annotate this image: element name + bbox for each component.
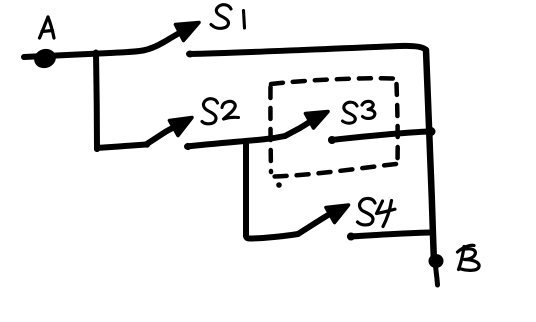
junction dot S3/right rail [427,127,436,136]
node B label [458,245,480,270]
label S2 [202,99,239,124]
contact blob S1 [187,51,194,58]
stray dash dot [276,182,282,188]
switch S2 fixed wire continuing to S3 arm pivot [187,136,285,147]
right rail wire (down to B) [426,50,434,263]
wire branch to S2 pivot [97,145,146,150]
junction at A branch [96,53,97,150]
branch wire down to S4 [243,142,249,236]
dashed box bottom edge [273,164,396,177]
switch S3 fixed contact wire to right rail [331,132,430,141]
switch S4 arrowhead [326,205,349,223]
switch S4 fixed contact wire to right rail [350,233,430,237]
switch S1 arm [143,30,186,51]
switch S4 arm [298,212,333,234]
switch S1 fixed contact wire to right rail [189,46,426,54]
node A terminal dot [32,46,59,71]
switch S3 arrowhead [306,112,329,129]
wire to S4 pivot [246,234,298,239]
wire from A to S1 pivot [24,51,143,58]
node A label [40,17,55,38]
switch S1 arrowhead [176,23,200,41]
contact blob S3 [328,136,336,144]
label S3 [343,101,375,123]
switch S2 arm [146,125,178,145]
switch S3 arm [285,121,312,137]
pivot blob S2 [144,141,150,147]
label S4 [358,198,396,226]
dashed box top edge [271,78,394,84]
contact blob S2 [184,143,191,150]
node B tail stub [436,266,438,285]
dashed box right edge [397,84,398,161]
contact blob S4 [347,233,355,241]
dashed box left edge [268,87,273,172]
label S1 [211,5,245,29]
switch S2 arrowhead [170,118,193,136]
node B terminal dot [429,254,444,268]
